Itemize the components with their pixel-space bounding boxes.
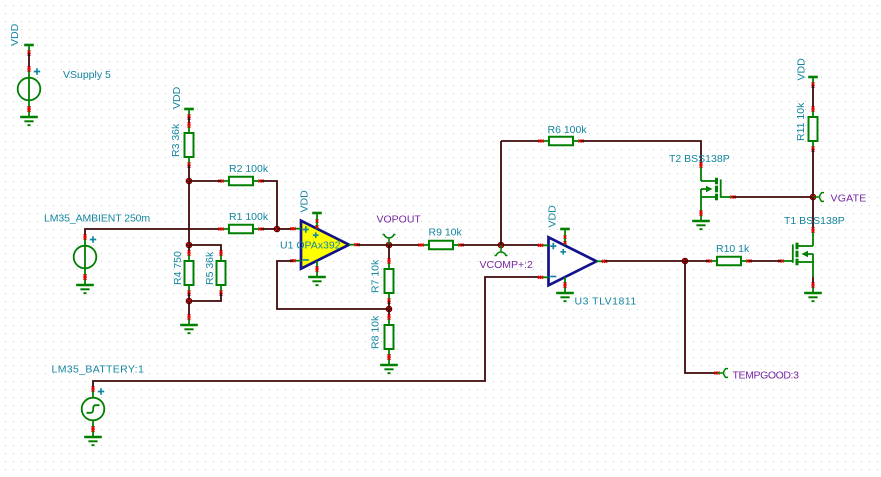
- wire T2 gate to VGATE node: [733, 196, 813, 198]
- wire node F to TEMPGOOD: [685, 261, 717, 373]
- junction node B (R4/R5 top): [186, 242, 193, 249]
- ground of T2: [692, 210, 710, 229]
- VDD symbol at R3: [184, 109, 194, 120]
- ground of LM35_BATTERY: [84, 426, 102, 445]
- op-amp U3: [538, 237, 607, 285]
- svg-text:R8 10k: R8 10k: [370, 315, 382, 349]
- resistor R2: [218, 177, 263, 186]
- resistor R4: [185, 250, 194, 295]
- wire VGATE to T1 drain: [812, 197, 814, 230]
- wire R2 to node C: [261, 181, 277, 229]
- transistor T2: [700, 162, 721, 200]
- junction node F (U3 out/R10/TEMPGOOD): [682, 258, 689, 265]
- label R10 value: [716, 243, 750, 255]
- ground of U1: [308, 266, 326, 285]
- svg-text:R6 100k: R6 100k: [548, 124, 588, 136]
- node flag VCOMP+:2: [495, 245, 508, 256]
- label VDD of U1: [299, 190, 311, 213]
- label T1: [784, 215, 845, 227]
- node label VGATE: [831, 193, 867, 205]
- label U1: [280, 240, 341, 252]
- T2 source lead to ground: [700, 197, 702, 213]
- svg-text:LM35_AMBIENT 250m: LM35_AMBIENT 250m: [44, 212, 150, 224]
- label U3: [575, 296, 637, 308]
- ground stem of U3: [564, 277, 566, 285]
- wire T2 gate lead: [721, 196, 736, 199]
- label LM35_BATTERY: [52, 364, 145, 376]
- junction VOPOUT node: [386, 242, 393, 249]
- svg-text:VGATE: VGATE: [831, 193, 867, 205]
- node label VCOMP+:2: [480, 259, 534, 271]
- wire node B to R4: [188, 245, 190, 253]
- wire T1 gate lead: [778, 260, 792, 263]
- svg-text:VDD: VDD: [299, 190, 311, 213]
- svg-text:R11 10k: R11 10k: [795, 102, 807, 141]
- resistor R3: [185, 122, 194, 167]
- VDD supply of U3: [560, 229, 570, 245]
- T1 source lead to ground: [812, 261, 814, 277]
- svg-text:T1 BSS138P: T1 BSS138P: [784, 215, 845, 227]
- junction node A (R3/R2): [186, 178, 193, 185]
- wire LM35_BATTERY to U3 inverting input: [93, 277, 541, 389]
- ground of T1: [804, 282, 822, 301]
- svg-text:VCOMP+:2: VCOMP+:2: [480, 259, 534, 271]
- label R6 value: [548, 124, 588, 136]
- node flag VGATE: [813, 193, 824, 202]
- wire R7 to node E: [388, 301, 390, 309]
- svg-text:VDD: VDD: [9, 23, 21, 46]
- svg-text:R9 10k: R9 10k: [429, 227, 463, 239]
- svg-text:R5 36k: R5 36k: [204, 251, 216, 285]
- label R1 value: [229, 211, 269, 223]
- wire R10 to T1 gate: [749, 260, 781, 262]
- label LM35_AMBIENT: [44, 212, 150, 224]
- voltage source LM35_BATTERY: [82, 386, 105, 431]
- VDD label at R3: [171, 86, 183, 109]
- label VSupply: [63, 69, 111, 81]
- label R11 value: [795, 102, 807, 141]
- svg-text:R7 10k: R7 10k: [370, 259, 382, 293]
- label R3 value: [170, 123, 182, 157]
- label T2: [669, 153, 730, 165]
- label R7 value: [370, 259, 382, 293]
- wire VCOMP+ up to R6: [500, 141, 502, 245]
- wire node C to U1 non-inverting input: [277, 228, 293, 230]
- svg-text:VOPOUT: VOPOUT: [377, 214, 422, 226]
- wire R11 to VGATE node: [812, 149, 814, 197]
- resistor R8: [385, 314, 394, 359]
- wire to R6 left: [501, 140, 541, 142]
- label R2 value: [229, 163, 269, 175]
- node label TEMPGOOD:3: [733, 370, 800, 382]
- svg-text:TEMPGOOD:3: TEMPGOOD:3: [733, 370, 800, 382]
- transistor T1: [793, 227, 815, 265]
- wire T1 source to ground: [812, 277, 814, 285]
- svg-text:R10 1k: R10 1k: [716, 243, 750, 255]
- wire R3 to node A: [188, 165, 190, 181]
- VDD supply of U1: [312, 213, 322, 229]
- wire node E to U1 inverting input: [277, 261, 389, 309]
- svg-text:R4 750: R4 750: [172, 251, 184, 285]
- voltage source VSupply: [18, 66, 41, 111]
- label R8 value: [370, 315, 382, 349]
- resistor R9: [418, 241, 463, 250]
- resistor R10: [706, 257, 751, 266]
- svg-text:R3 36k: R3 36k: [170, 123, 182, 157]
- svg-text:T2 BSS138P: T2 BSS138P: [669, 153, 730, 165]
- wire R1 to node C: [261, 228, 277, 230]
- wire node A to R2: [189, 180, 221, 182]
- wire R5 to node D: [189, 293, 221, 301]
- label R9 value: [429, 227, 463, 239]
- wire LM35_AMBIENT to R1: [85, 229, 221, 237]
- label R5 value: [204, 251, 216, 285]
- ground of VSupply: [20, 106, 38, 125]
- junction node E (R7/R8): [386, 306, 393, 313]
- svg-text:U3 TLV1811: U3 TLV1811: [575, 296, 637, 308]
- svg-text:LM35_BATTERY:1: LM35_BATTERY:1: [52, 364, 145, 376]
- resistor R1: [218, 225, 263, 234]
- junction node C (R1/R2/U1+): [274, 226, 281, 233]
- ground stem of U1: [316, 261, 318, 269]
- ground of U3: [556, 282, 574, 301]
- wire R4 to node D: [188, 293, 190, 301]
- resistor R11: [809, 106, 818, 151]
- resistor R6: [538, 137, 583, 146]
- wire node A down to node B: [188, 181, 190, 245]
- pin TEMPGOOD: [714, 372, 719, 375]
- svg-text:U1 OPAx392: U1 OPAx392: [280, 240, 341, 252]
- resistor R7: [385, 258, 394, 303]
- wire VDD to R3: [188, 117, 190, 125]
- wire node E to R8: [388, 309, 390, 317]
- junction VCOMP+ node: [498, 242, 505, 249]
- wire R6 to T2 drain: [581, 141, 701, 165]
- label VDD of U3: [547, 205, 559, 228]
- svg-text:VDD: VDD: [796, 58, 808, 81]
- svg-text:VDD: VDD: [171, 86, 183, 109]
- voltage source LM35_AMBIENT: [74, 234, 97, 279]
- ground of R4/R5 divider: [180, 314, 198, 333]
- junction VGATE node: [810, 194, 817, 201]
- wire U3 output to node F: [605, 260, 685, 262]
- VDD symbol at VSupply: [24, 45, 34, 56]
- wire node F to R10: [685, 260, 709, 262]
- svg-text:R2 100k: R2 100k: [229, 163, 269, 175]
- junction node D (R4/R5 bottom): [186, 298, 193, 305]
- svg-text:VSupply 5: VSupply 5: [63, 69, 111, 81]
- wire VDD to R11: [812, 85, 814, 109]
- svg-text:VDD: VDD: [547, 205, 559, 228]
- ground of LM35_AMBIENT: [76, 274, 94, 293]
- resistor R5: [217, 250, 226, 295]
- node flag TEMPGOOD:3: [717, 369, 728, 378]
- node label VOPOUT: [377, 214, 422, 226]
- wire U1 output to VOPOUT node: [357, 244, 389, 246]
- wire VOPOUT to R7: [388, 245, 390, 261]
- svg-text:R1 100k: R1 100k: [229, 211, 269, 223]
- op-amp U1: [290, 221, 359, 269]
- VDD label at R11: [796, 58, 808, 81]
- label R4 value: [172, 251, 184, 285]
- wire R9 to VCOMP+ node: [461, 244, 541, 246]
- VDD symbol at R11: [808, 77, 818, 88]
- wire VOPOUT to R9: [389, 244, 421, 246]
- VDD label at VSupply: [9, 23, 21, 46]
- wire node D to ground: [188, 301, 190, 317]
- ground of R8: [380, 354, 398, 373]
- node flag VOPOUT: [383, 235, 396, 246]
- wire VDD to VSupply +: [28, 53, 30, 69]
- wire node B to R5: [189, 245, 221, 253]
